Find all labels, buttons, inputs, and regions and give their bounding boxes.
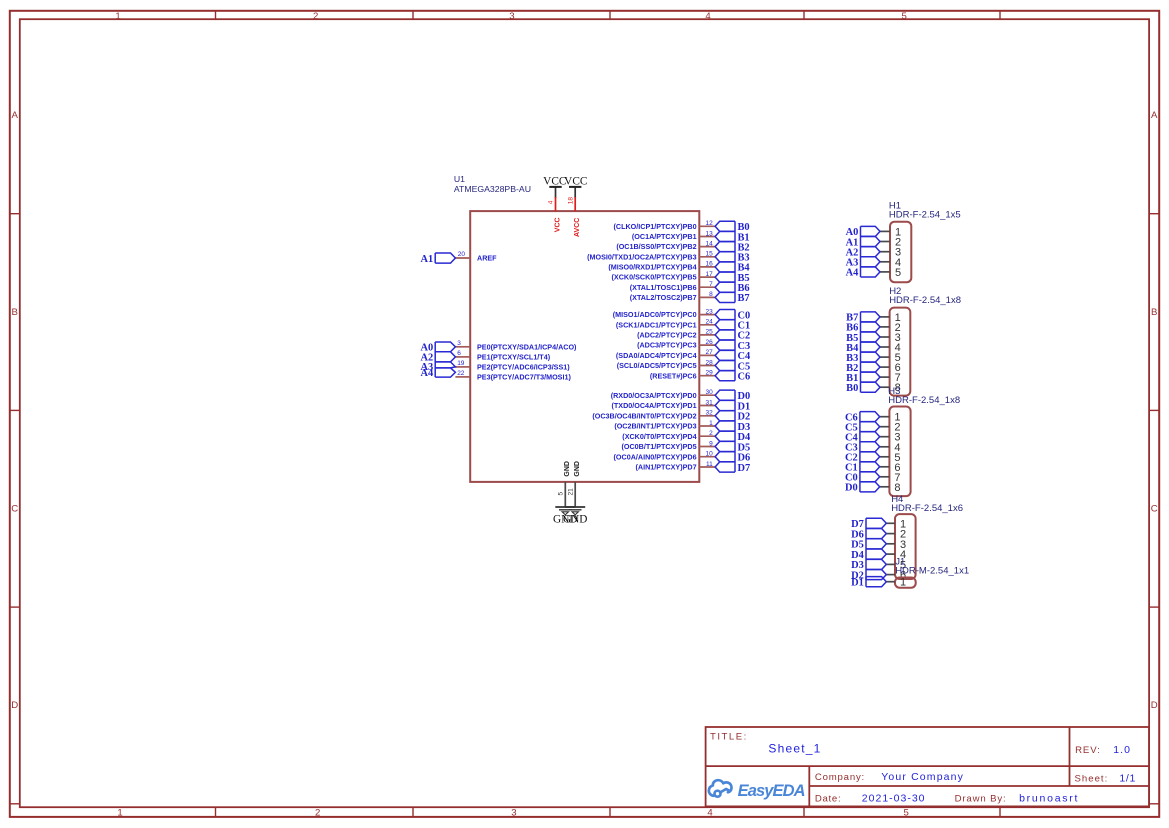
svg-text:(XTAL2/TOSC2)PB7: (XTAL2/TOSC2)PB7 xyxy=(630,293,697,302)
svg-text:REV:: REV: xyxy=(1075,745,1101,756)
svg-text:D1: D1 xyxy=(851,578,864,589)
svg-text:D: D xyxy=(11,700,18,711)
svg-text:(OC0B/T1/PTCXY)PD5: (OC0B/T1/PTCXY)PD5 xyxy=(622,442,697,451)
svg-text:A4: A4 xyxy=(420,368,433,379)
svg-text:C6: C6 xyxy=(738,372,751,383)
svg-text:D: D xyxy=(1151,700,1158,711)
svg-text:23: 23 xyxy=(705,308,713,315)
svg-text:U1: U1 xyxy=(454,174,465,184)
svg-text:VCC: VCC xyxy=(554,217,561,232)
svg-text:Sheet:: Sheet: xyxy=(1075,773,1109,784)
svg-text:8: 8 xyxy=(709,291,713,298)
svg-text:9: 9 xyxy=(709,440,713,447)
svg-text:(OC1B/SS0/PTCXY)PB2: (OC1B/SS0/PTCXY)PB2 xyxy=(616,242,696,251)
svg-text:(MISO0/RXD1/PTCXY)PB4: (MISO0/RXD1/PTCXY)PB4 xyxy=(608,263,696,272)
svg-text:C: C xyxy=(1151,504,1158,515)
svg-text:13: 13 xyxy=(705,230,713,237)
svg-text:(MISO1/ADC0/PTCY)PC0: (MISO1/ADC0/PTCY)PC0 xyxy=(613,310,697,319)
svg-text:1/1: 1/1 xyxy=(1119,772,1136,784)
svg-text:HDR-F-2.54_1x8: HDR-F-2.54_1x8 xyxy=(888,395,960,406)
svg-text:12: 12 xyxy=(705,220,713,227)
svg-text:4: 4 xyxy=(705,11,711,22)
svg-text:(TXD0/OC4A/PTCXY)PD1: (TXD0/OC4A/PTCXY)PD1 xyxy=(612,401,697,410)
svg-text:27: 27 xyxy=(705,349,713,356)
svg-text:(MOSI0/TXD1/OC2A/PTCXY)PB3: (MOSI0/TXD1/OC2A/PTCXY)PB3 xyxy=(587,252,696,261)
svg-text:22: 22 xyxy=(457,370,465,377)
svg-text:(OC1A/PTCXY)PB1: (OC1A/PTCXY)PB1 xyxy=(632,232,697,241)
svg-text:11: 11 xyxy=(706,461,713,468)
svg-text:2021-03-30: 2021-03-30 xyxy=(862,793,926,805)
svg-text:HDR-F-2.54_1x8: HDR-F-2.54_1x8 xyxy=(889,295,961,306)
svg-text:(ADC3/PTCY)PC3: (ADC3/PTCY)PC3 xyxy=(637,341,697,350)
svg-text:Your Company: Your Company xyxy=(881,771,964,783)
svg-text:(OC2B/INT1/PTCXY)PD3: (OC2B/INT1/PTCXY)PD3 xyxy=(614,422,696,431)
svg-text:TITLE:: TITLE: xyxy=(710,732,748,743)
svg-text:1: 1 xyxy=(115,11,120,22)
svg-text:28: 28 xyxy=(705,359,713,366)
svg-text:GND: GND xyxy=(564,461,571,477)
svg-text:1: 1 xyxy=(117,808,122,819)
svg-text:Date:: Date: xyxy=(815,794,841,805)
svg-text:PE2(PTCY/ADC6/ICP3/SS1): PE2(PTCY/ADC6/ICP3/SS1) xyxy=(477,363,570,372)
svg-text:D7: D7 xyxy=(738,463,751,474)
svg-text:Sheet_1: Sheet_1 xyxy=(768,741,821,755)
svg-text:4: 4 xyxy=(548,200,555,204)
svg-text:2: 2 xyxy=(313,11,318,22)
svg-text:A4: A4 xyxy=(846,268,859,279)
svg-text:D0: D0 xyxy=(845,483,858,494)
svg-text:C: C xyxy=(11,504,18,515)
svg-text:5: 5 xyxy=(904,808,909,819)
svg-text:3: 3 xyxy=(457,340,461,347)
svg-text:HDR-F-2.54_1x5: HDR-F-2.54_1x5 xyxy=(889,210,961,221)
svg-text:31: 31 xyxy=(705,399,713,406)
svg-text:B: B xyxy=(11,307,17,318)
svg-text:B7: B7 xyxy=(738,293,750,304)
svg-text:24: 24 xyxy=(705,319,713,326)
svg-text:(XTAL1/TOSC1)PB6: (XTAL1/TOSC1)PB6 xyxy=(630,283,697,292)
svg-text:brunoasrt: brunoasrt xyxy=(1019,793,1079,805)
svg-text:17: 17 xyxy=(705,271,713,278)
svg-text:2: 2 xyxy=(709,430,713,437)
svg-text:(ADC2/PTCY)PC2: (ADC2/PTCY)PC2 xyxy=(637,331,697,340)
svg-text:AREF: AREF xyxy=(477,254,497,263)
svg-text:8: 8 xyxy=(894,482,900,494)
svg-text:PE1(PTCXY/SCL1/T4): PE1(PTCXY/SCL1/T4) xyxy=(477,353,551,362)
svg-text:32: 32 xyxy=(705,410,713,417)
svg-text:5: 5 xyxy=(558,492,565,496)
svg-text:16: 16 xyxy=(705,261,713,268)
svg-text:EasyEDA: EasyEDA xyxy=(738,782,805,800)
svg-text:(AIN1/PTCXY)PD7: (AIN1/PTCXY)PD7 xyxy=(635,463,696,472)
svg-text:19: 19 xyxy=(457,360,465,367)
svg-text:VCC: VCC xyxy=(564,176,587,188)
svg-text:Company:: Company: xyxy=(815,772,865,783)
svg-text:VCC: VCC xyxy=(543,176,566,188)
svg-text:(RESET#)PC6: (RESET#)PC6 xyxy=(650,371,697,380)
svg-text:14: 14 xyxy=(705,240,713,247)
svg-text:PE0(PTCXY/SDA1/ICP4/ACO): PE0(PTCXY/SDA1/ICP4/ACO) xyxy=(477,342,577,351)
svg-text:1: 1 xyxy=(709,420,713,427)
svg-text:(RXD0/OC3A/PTCXY)PD0: (RXD0/OC3A/PTCXY)PD0 xyxy=(611,391,697,400)
svg-text:GND: GND xyxy=(563,514,587,526)
svg-text:18: 18 xyxy=(567,197,574,205)
svg-text:ATMEGA328PB-AU: ATMEGA328PB-AU xyxy=(454,184,531,194)
svg-text:A: A xyxy=(11,110,18,121)
svg-text:(SCK1/ADC1/PTCY)PC1: (SCK1/ADC1/PTCY)PC1 xyxy=(616,320,697,329)
svg-text:29: 29 xyxy=(705,370,713,377)
svg-text:(XCK0/T0/PTCXY)PD4: (XCK0/T0/PTCXY)PD4 xyxy=(622,432,696,441)
svg-text:(OC3B/OC4B/INT0/PTCXY)PD2: (OC3B/OC4B/INT0/PTCXY)PD2 xyxy=(592,411,696,420)
svg-text:1: 1 xyxy=(900,577,906,589)
svg-text:AVCC: AVCC xyxy=(574,218,581,237)
svg-text:Drawn By:: Drawn By: xyxy=(955,794,1007,805)
svg-text:A: A xyxy=(1151,110,1158,121)
svg-text:21: 21 xyxy=(568,488,575,496)
svg-text:HDR-M-2.54_1x1: HDR-M-2.54_1x1 xyxy=(895,566,969,577)
svg-text:5: 5 xyxy=(895,267,901,279)
svg-text:2: 2 xyxy=(315,808,320,819)
svg-text:10: 10 xyxy=(705,451,713,458)
svg-text:7: 7 xyxy=(709,281,713,288)
svg-text:3: 3 xyxy=(509,11,514,22)
svg-text:(XCK0/SCK0/PTCXY)PB5: (XCK0/SCK0/PTCXY)PB5 xyxy=(612,273,697,282)
svg-text:PE3(PTCY/ADC7/T3/MOSI1): PE3(PTCY/ADC7/T3/MOSI1) xyxy=(477,373,571,382)
svg-text:20: 20 xyxy=(458,251,466,258)
svg-text:A1: A1 xyxy=(420,254,433,265)
svg-text:(SCL0/ADC5/PTCY)PC5: (SCL0/ADC5/PTCY)PC5 xyxy=(617,361,697,370)
svg-text:(OC0A/AIN0/PTCXY)PD6: (OC0A/AIN0/PTCXY)PD6 xyxy=(614,452,697,461)
svg-text:25: 25 xyxy=(705,329,713,336)
svg-text:3: 3 xyxy=(511,808,516,819)
svg-text:4: 4 xyxy=(707,808,713,819)
svg-text:(SDA0/ADC4/PTCY)PC4: (SDA0/ADC4/PTCY)PC4 xyxy=(616,351,697,360)
svg-text:GND: GND xyxy=(574,461,581,477)
svg-text:5: 5 xyxy=(902,11,907,22)
svg-text:B0: B0 xyxy=(846,383,858,394)
svg-text:15: 15 xyxy=(705,251,713,258)
svg-text:6: 6 xyxy=(457,350,461,357)
svg-text:1.0: 1.0 xyxy=(1113,744,1131,756)
svg-text:B: B xyxy=(1151,307,1157,318)
svg-text:(CLKO/ICP1/PTCXY)PB0: (CLKO/ICP1/PTCXY)PB0 xyxy=(614,222,697,231)
svg-text:26: 26 xyxy=(705,339,713,346)
svg-text:30: 30 xyxy=(705,389,713,396)
svg-text:HDR-F-2.54_1x6: HDR-F-2.54_1x6 xyxy=(891,503,963,514)
